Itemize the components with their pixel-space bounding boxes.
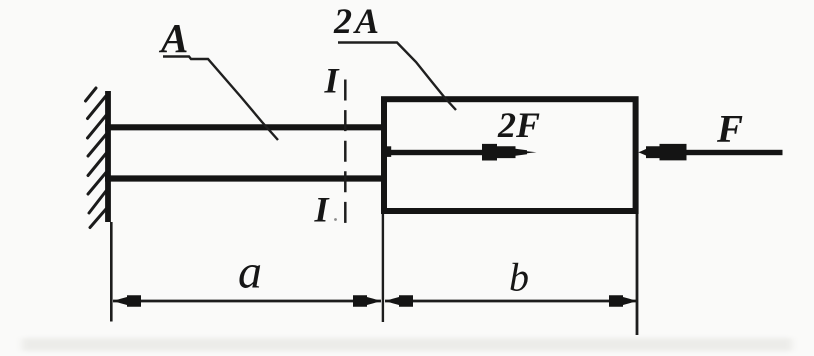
leader line for 2A (338, 43, 456, 111)
fixed support hatching (86, 88, 107, 228)
dimension arrow a left (113, 295, 141, 306)
svg-text:2A: 2A (333, 1, 382, 41)
svg-text:a: a (238, 246, 262, 299)
bar A bottom edge (105, 175, 386, 181)
bar 2A outline (384, 99, 636, 211)
svg-text:b: b (509, 255, 529, 300)
extension line left (110, 222, 113, 322)
force arrow 2F (384, 144, 537, 161)
bar A top edge (105, 124, 386, 130)
dimension line a (113, 300, 381, 303)
extension line middle (382, 214, 384, 322)
svg-text:A: A (158, 15, 188, 61)
dimension arrow a right (353, 295, 381, 306)
dimension line b (385, 300, 637, 303)
extension line right (636, 214, 639, 335)
leader line for A (163, 57, 278, 141)
period dot after lower I (334, 218, 337, 221)
svg-text:2F: 2F (497, 105, 540, 145)
svg-text:I: I (324, 61, 341, 101)
section line I-I dashed (344, 80, 347, 224)
dimension arrow b right (609, 295, 637, 306)
dimension arrow b left (385, 295, 413, 306)
svg-text:I: I (314, 190, 331, 230)
fixed support wall line (105, 91, 111, 222)
svg-text:F: F (716, 108, 743, 151)
force arrow F (638, 144, 782, 161)
